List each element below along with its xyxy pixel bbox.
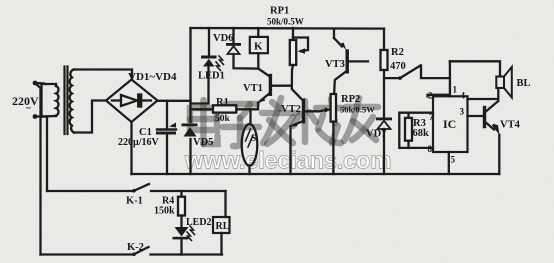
svg-text:S: S	[251, 134, 256, 144]
svg-text:www.elecians.com: www.elecians.com	[184, 148, 391, 175]
svg-text:470: 470	[390, 61, 406, 72]
svg-text:IC: IC	[443, 117, 456, 131]
svg-text:VD5: VD5	[193, 137, 213, 148]
svg-text:3: 3	[460, 107, 465, 117]
svg-text:150k: 150k	[154, 206, 175, 217]
svg-text:VD6: VD6	[213, 33, 233, 44]
svg-text:7: 7	[429, 112, 434, 122]
svg-text:RL: RL	[216, 221, 230, 232]
svg-text:LED2: LED2	[186, 217, 212, 228]
svg-text:50k: 50k	[215, 114, 231, 124]
svg-text:VD1~VD4: VD1~VD4	[128, 71, 177, 83]
svg-text:R2: R2	[391, 47, 404, 58]
svg-text:LED1: LED1	[198, 71, 225, 82]
svg-text:RP2: RP2	[341, 94, 360, 105]
svg-text:~: ~	[26, 103, 31, 113]
svg-text:VT2: VT2	[281, 104, 301, 115]
svg-text:5: 5	[451, 155, 456, 165]
svg-text:VD7: VD7	[366, 129, 386, 140]
svg-text:8: 8	[428, 144, 433, 154]
svg-text:68k: 68k	[413, 128, 430, 139]
svg-text:R1: R1	[216, 97, 229, 108]
svg-text:BL: BL	[517, 78, 531, 89]
svg-text:K-2: K-2	[127, 242, 144, 253]
svg-text:50k/0.5W: 50k/0.5W	[267, 17, 304, 27]
svg-text:K-1: K-1	[126, 196, 143, 207]
svg-text:50k/0.5W: 50k/0.5W	[340, 105, 375, 115]
svg-text:4: 4	[461, 91, 466, 101]
svg-text:2: 2	[428, 91, 433, 101]
svg-text:220µ/16V: 220µ/16V	[118, 137, 160, 148]
svg-text:RP1: RP1	[270, 6, 289, 17]
svg-text:K: K	[254, 41, 263, 53]
svg-text:1: 1	[453, 85, 458, 95]
svg-text:VT4: VT4	[500, 120, 521, 131]
svg-text:VT3: VT3	[325, 59, 345, 70]
svg-text:VT1: VT1	[243, 83, 263, 94]
